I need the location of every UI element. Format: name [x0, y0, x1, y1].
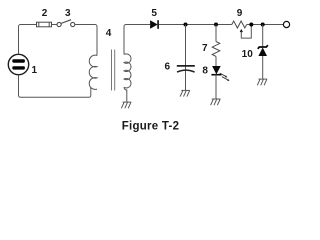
- svg-text:6: 6: [165, 61, 171, 72]
- node dot wiper return: [249, 23, 253, 27]
- transformer 4 secondary coil: [124, 54, 131, 88]
- svg-text:9: 9: [237, 8, 243, 19]
- transformer core: [111, 50, 113, 91]
- wire secondary top to rail: [124, 25, 150, 55]
- svg-text:Figure T-2: Figure T-2: [122, 120, 179, 132]
- switch 3: [57, 20, 75, 27]
- wire source bottom + bottom rail + up to primary: [19, 75, 91, 98]
- wire down through capacitor: [185, 25, 187, 91]
- wire fuse to switch: [52, 24, 57, 26]
- ground below LED: [211, 99, 221, 105]
- svg-text:5: 5: [151, 8, 157, 19]
- svg-text:10: 10: [242, 49, 254, 60]
- wire zener to ground: [262, 56, 264, 79]
- rheostat wiper arrow: [240, 29, 243, 32]
- wire down to resistor 7: [215, 25, 217, 42]
- wire switch to transformer primary: [75, 25, 97, 56]
- wire secondary bottom to ground: [124, 87, 127, 102]
- fuse 2: [37, 22, 52, 27]
- ground below secondary: [121, 102, 131, 108]
- wire resistor to LED: [215, 56, 217, 66]
- node dot above zener: [261, 23, 265, 27]
- ground below zener: [257, 79, 267, 85]
- svg-text:2: 2: [42, 8, 48, 19]
- capacitor 6: [177, 66, 195, 72]
- AC source plug 1: [8, 54, 28, 74]
- wire source top to fuse: [19, 25, 37, 55]
- resistor 9 (rheostat): [232, 21, 247, 28]
- svg-text:7: 7: [202, 43, 208, 54]
- svg-text:8: 8: [202, 66, 208, 77]
- diode 5: [150, 20, 158, 29]
- transformer 4 primary coil: [89, 55, 97, 89]
- svg-text:4: 4: [106, 28, 112, 39]
- wire diode to resistor 9: [159, 24, 232, 26]
- zener diode 10: [258, 45, 268, 56]
- node dot above resistor 7: [214, 23, 218, 27]
- resistor 7: [212, 42, 220, 57]
- wire LED to ground: [215, 75, 217, 99]
- LED 8: [211, 66, 229, 81]
- ground below capacitor: [180, 90, 190, 96]
- svg-text:3: 3: [65, 8, 71, 19]
- wiper return wire: [241, 26, 251, 39]
- wire resistor 9 to terminal: [247, 24, 284, 26]
- wire down to zener: [262, 25, 264, 47]
- node dot above capacitor: [184, 23, 188, 27]
- output terminal: [283, 21, 289, 27]
- svg-text:1: 1: [32, 65, 38, 76]
